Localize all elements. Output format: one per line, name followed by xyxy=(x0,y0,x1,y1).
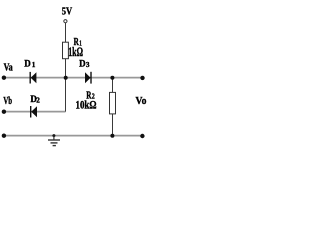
svg-text:2: 2 xyxy=(36,97,40,105)
svg-text:Vo: Vo xyxy=(136,96,147,107)
node junction dot R1/D1/D2/D3 xyxy=(64,76,68,80)
node junction dot D3/R2 xyxy=(110,76,114,80)
svg-text:1kΩ: 1kΩ xyxy=(68,45,83,59)
svg-text:3: 3 xyxy=(86,61,90,69)
node Vo bottom terminal dot xyxy=(140,134,144,138)
svg-text:Vb: Vb xyxy=(3,96,12,107)
node junction dot R2/ground rail xyxy=(110,134,114,138)
node bottom-left terminal dot xyxy=(2,134,6,138)
node Vo top terminal dot xyxy=(140,76,144,80)
resistor R1 xyxy=(63,42,69,59)
diode D3 xyxy=(85,72,91,84)
node Va terminal dot xyxy=(2,76,6,80)
wire top rail Va/D1/D3 to Vo xyxy=(4,77,143,79)
wire bottom rail ground xyxy=(4,135,143,137)
resistor R2 xyxy=(110,92,116,114)
5V terminal circle xyxy=(64,20,67,23)
diode D2 xyxy=(31,106,37,118)
wire mid rail Vb/D2 xyxy=(4,111,66,113)
diode D1 xyxy=(30,72,36,84)
svg-text:5V: 5V xyxy=(62,6,73,18)
node Vb terminal dot xyxy=(2,110,6,114)
svg-text:Va: Va xyxy=(4,63,13,74)
wire R2 branch vertical xyxy=(112,78,114,136)
svg-text:1: 1 xyxy=(32,61,36,69)
svg-text:10kΩ: 10kΩ xyxy=(76,100,97,112)
svg-text:D: D xyxy=(24,58,31,68)
ground xyxy=(48,134,60,146)
wire vertical 5V/R1/D2 branch xyxy=(65,23,67,112)
